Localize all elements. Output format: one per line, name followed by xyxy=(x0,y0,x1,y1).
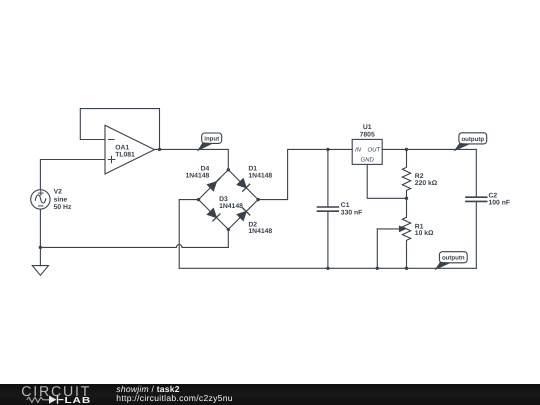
D1 label xyxy=(248,166,272,180)
wire V2 top to op-amp + input xyxy=(40,160,105,190)
output node dot xyxy=(158,148,161,151)
ground xyxy=(32,266,48,276)
diode D1 (top vertex to right vertex) xyxy=(237,179,250,192)
svg-text:10 kΩ: 10 kΩ xyxy=(415,230,434,237)
node bridge right vertex (DC+) xyxy=(256,198,259,201)
logo resistor zigzag xyxy=(27,397,50,402)
C1 junction dots xyxy=(326,148,329,151)
svg-text:100 nF: 100 nF xyxy=(489,200,511,207)
node junction V2/ground/AC wire xyxy=(39,246,42,249)
capacitor C2 xyxy=(466,149,487,268)
node bridge bottom vertex (AC in) xyxy=(227,228,230,231)
bridge edge top-right xyxy=(228,170,258,200)
feedback wire (output to - input) xyxy=(80,109,159,150)
svg-text:LAB: LAB xyxy=(65,395,92,405)
svg-text:TL081: TL081 xyxy=(115,152,135,159)
svg-text:1N4148: 1N4148 xyxy=(248,228,272,235)
resistor R2 xyxy=(402,149,410,198)
bridge edge bottom-left xyxy=(199,200,229,230)
logo diode symbol xyxy=(49,396,57,404)
flag outputn xyxy=(436,252,467,269)
flag input xyxy=(198,133,221,150)
junction dot R1 bottom on rail xyxy=(405,267,408,270)
R1 label xyxy=(415,223,434,237)
diode D2 (bottom vertex to right vertex) xyxy=(237,208,250,221)
svg-text:IN: IN xyxy=(355,147,362,154)
svg-text:330 nF: 330 nF xyxy=(341,209,363,216)
wire bridge right vertex up to DC+ rail xyxy=(258,149,352,199)
svg-text:1N4148: 1N4148 xyxy=(219,203,243,210)
capacitor C1 xyxy=(318,149,339,268)
wire DC- bottom rail xyxy=(179,267,476,269)
bridge edge top-left xyxy=(199,170,229,200)
V2 label xyxy=(54,189,72,212)
D2 label xyxy=(248,221,272,235)
wire U1 GND to R1/R2 junction xyxy=(367,164,406,198)
op-amp OA1 xyxy=(105,125,155,174)
wire U1 OUT to outputp corner xyxy=(382,148,476,150)
diode D4 (left vertex to top vertex) xyxy=(207,178,220,191)
junction dot wiper on rail xyxy=(376,267,379,270)
svg-text:OUT: OUT xyxy=(368,147,382,154)
regulator U1 7805 xyxy=(352,139,382,164)
C1 label xyxy=(341,202,363,216)
svg-text:U1: U1 xyxy=(363,124,372,131)
svg-text:220 kΩ: 220 kΩ xyxy=(415,180,438,187)
junction dot R2 top xyxy=(405,148,408,151)
node bridge left vertex (DC-) xyxy=(197,198,200,201)
svg-text:1N4148: 1N4148 xyxy=(185,172,209,179)
svg-text:C1: C1 xyxy=(341,202,350,209)
R2 label xyxy=(415,173,438,187)
bridge edge bottom-right xyxy=(228,200,258,230)
junction dot R2/R1/GND xyxy=(405,197,408,200)
svg-text:C2: C2 xyxy=(489,192,498,199)
svg-text:1N4148: 1N4148 xyxy=(248,172,272,179)
wire op-amp output to bridge top xyxy=(155,149,229,169)
svg-text:GND: GND xyxy=(361,157,375,164)
C2 label xyxy=(489,192,511,206)
D4 label xyxy=(185,166,209,180)
wire bridge left vertex to DC- rail xyxy=(179,200,198,269)
svg-text:http://circuitlab.com/c2zy5nu: http://circuitlab.com/c2zy5nu xyxy=(116,393,233,403)
svg-text:sine: sine xyxy=(54,196,68,203)
flag outputp xyxy=(455,133,487,150)
wire AC bottom (V2 to bridge bottom) with hop over DC- wire xyxy=(40,245,228,248)
D3 label xyxy=(219,196,243,210)
wire bridge bottom vertex down to AC wire xyxy=(227,229,229,247)
wire V2 bottom to ground junction xyxy=(39,209,41,266)
svg-text:50 Hz: 50 Hz xyxy=(54,204,72,211)
svg-text:outputp: outputp xyxy=(461,136,484,143)
potentiometer R1 xyxy=(377,198,410,268)
OA1 label xyxy=(115,144,135,158)
voltage source V2 xyxy=(31,190,50,209)
svg-text:V2: V2 xyxy=(54,189,63,196)
node bridge top vertex (AC in) xyxy=(227,168,230,171)
svg-text:7805: 7805 xyxy=(360,132,375,139)
svg-text:OA1: OA1 xyxy=(115,144,129,151)
svg-text:outputn: outputn xyxy=(442,255,465,262)
svg-text:input: input xyxy=(204,136,219,143)
wire R1 wiper down to DC- rail xyxy=(376,229,378,268)
diode D3 (left vertex to bottom vertex) xyxy=(207,209,220,222)
